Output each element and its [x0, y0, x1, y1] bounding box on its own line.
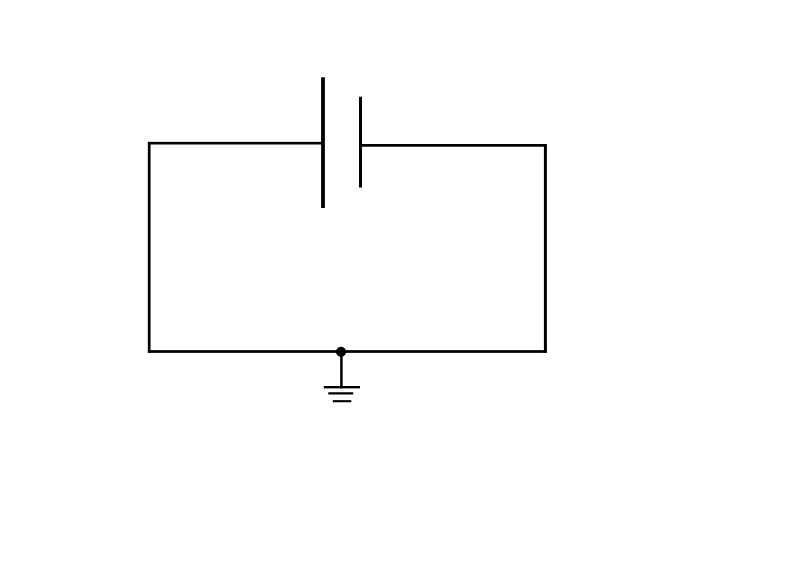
ground symbol: [324, 387, 360, 401]
wire: bottom segment: [148, 350, 547, 353]
battery cell (voltage source): [323, 77, 361, 208]
wire: ground stem: [340, 352, 343, 389]
wire: left vertical segment: [148, 142, 151, 353]
wire: top-right segment (battery - plate to right corner): [361, 144, 547, 147]
wire: top-left segment (left corner to battery + plate): [148, 142, 323, 145]
wire: right vertical segment: [544, 144, 547, 353]
node: junction dot on bottom wire: [336, 347, 346, 357]
